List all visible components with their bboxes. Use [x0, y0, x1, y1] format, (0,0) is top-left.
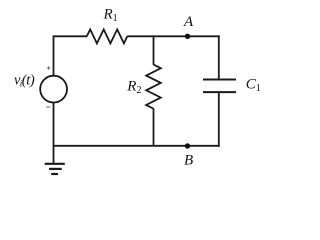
wire: bottom horizontal from ground junction to bottom-right corner — [54, 145, 220, 147]
wire: right vertical from capacitor bottom plate to bottom corner — [218, 92, 220, 147]
wire: right vertical from top corner to capacitor top plate — [218, 35, 220, 79]
svg-text:B: B — [184, 152, 193, 168]
wire: top-left horizontal from source to R1 — [54, 35, 88, 37]
resistor R2 — [126, 65, 161, 109]
wire: left vertical from top corner down to source — [53, 35, 55, 76]
svg-text:R2: R2 — [126, 79, 141, 97]
wire: R2 branch top stub — [153, 35, 155, 64]
node A — [183, 14, 194, 39]
ground — [45, 164, 65, 174]
svg-text:vi(t): vi(t) — [14, 72, 35, 88]
svg-text:C1: C1 — [246, 77, 261, 95]
svg-text:A: A — [183, 14, 194, 30]
svg-text:R1: R1 — [103, 7, 118, 25]
wire: R2 branch bottom stub — [153, 109, 155, 147]
capacitor C1 — [203, 77, 261, 95]
node B — [184, 143, 193, 168]
wire: top horizontal from R1 to top-right corner — [127, 35, 219, 37]
voltage source VS v_i(t) — [14, 66, 67, 107]
resistor R1 — [87, 7, 128, 44]
wire: left vertical from source down to ground — [53, 102, 55, 164]
